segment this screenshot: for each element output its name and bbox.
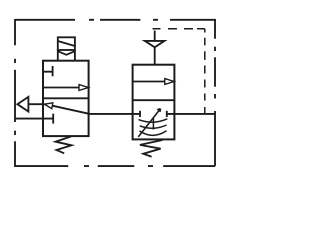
throttle left stop bar [139,111,141,117]
enclosure border bottom [14,165,215,167]
throttle right stop bar [166,111,168,117]
solenoid Y1 coil box [58,37,75,50]
throttle upper arc [139,119,168,122]
throttle needle bar [152,118,154,130]
regulator R1 spring [140,140,163,157]
throttle lower arc [140,131,167,136]
throttle adjustment arrow [138,109,160,137]
regulator R1 body [133,65,175,140]
vent triangle [145,41,165,47]
exhaust triangle [17,97,28,112]
throttle middle arc [140,125,167,128]
output line to border [167,113,216,115]
exhaust line [28,103,44,105]
valve V1 lower blocked port T [43,114,53,124]
valve V1 upper blocked port T [43,66,53,76]
pilot dashed line vertical [204,29,206,114]
vent stub below triangle [154,47,156,65]
regulator R1 divider [133,99,175,101]
supply line from border [15,118,43,120]
valve V1 upper flow path arrow [43,85,88,91]
vent stub above triangle [154,31,156,41]
valve V1 lower flow diagonal with arrowhead [44,103,88,114]
valve V1 body [43,61,89,136]
enclosure border top [15,19,216,21]
pilot dashed line horizontal [153,28,205,30]
regulator R1 flow path arrow [133,79,175,85]
valve V1 return spring [56,136,72,153]
wire valve to regulator [89,113,140,115]
solenoid Y1 stem and seat V [58,50,75,61]
enclosure border left [14,19,16,167]
valve V1 position divider [43,97,89,99]
enclosure border right [214,19,216,166]
